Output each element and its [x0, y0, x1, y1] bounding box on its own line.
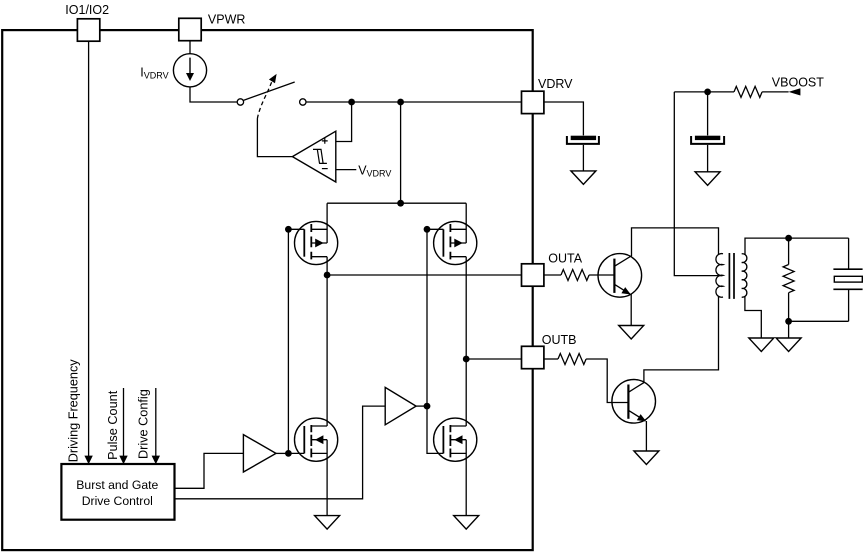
ground (below C1) — [571, 171, 596, 185]
wire: control block to buffer1 — [175, 453, 244, 488]
resistor R1 (OUTA series) — [561, 270, 589, 281]
wire: VBOOST node to cap C2 — [707, 92, 709, 135]
transformer T1 core — [729, 253, 734, 299]
transistor Q1 (NPN high) — [598, 228, 719, 326]
svg-text:VDRV: VDRV — [538, 77, 573, 91]
node: gate bus / buffer2 output — [424, 403, 431, 410]
pin OUTA — [522, 264, 544, 286]
current source IVDRV — [173, 54, 206, 87]
capacitor C2 (VBOOST decoupling) — [695, 136, 720, 140]
svg-text:VVDRV: VVDRV — [358, 164, 391, 179]
svg-text:VBOOST: VBOOST — [772, 76, 824, 90]
arrowhead into control block (Drive Config) — [152, 456, 160, 465]
wire: buffer2 output — [416, 405, 427, 407]
node: gate M2 — [424, 226, 431, 233]
wire: cap C2 to ground — [707, 145, 709, 172]
arrowhead into control block (Pulse Count) — [119, 456, 127, 465]
transformer T1 secondary winding — [742, 254, 747, 297]
svg-text:Pulse Count: Pulse Count — [106, 390, 120, 460]
wire: comparator plus input — [336, 102, 352, 142]
wire: R1 to Q1 base — [589, 274, 614, 276]
piezo transducer XD1 — [848, 238, 850, 321]
svg-text:IO1/IO2: IO1/IO2 — [65, 3, 109, 17]
wire: OUTA net — [327, 274, 521, 276]
wire: cap C1 to ground — [582, 145, 584, 171]
node: gate M1 — [285, 226, 292, 233]
control block: Burst and Gate Drive Control — [61, 464, 174, 520]
svg-text:VPWR: VPWR — [208, 12, 246, 26]
op-amp U1 (hysteresis comparator) — [292, 131, 335, 182]
transistor M1 (high-side PMOS left) — [288, 203, 337, 275]
wire: comparator minus stub (VVDRV) — [336, 169, 357, 171]
svg-text:OUTB: OUTB — [542, 333, 577, 347]
node: tank top junction — [785, 235, 792, 242]
wire: Drive Config line — [155, 388, 157, 456]
wire: comparator output to switch control — [257, 119, 292, 157]
wire: vertical to bridge top rail — [400, 102, 402, 203]
wire: VBOOST to transformer center tap — [674, 92, 722, 276]
buffer U3 (gate driver right) — [385, 387, 416, 424]
ground (Q1 emitter) — [619, 326, 644, 340]
wire: OUTB net — [466, 358, 521, 360]
node: junction main wire / bridge rail — [397, 99, 404, 106]
wire: secondary top to tank — [745, 238, 849, 255]
node: gate bus / buffer1 output — [285, 450, 292, 457]
wire: R2 to Q2 base — [586, 359, 628, 403]
ground (Q2 emitter) — [634, 451, 659, 465]
buffer U2 (gate driver left) — [243, 435, 276, 472]
VBOOST terminal arrow — [789, 88, 801, 95]
wire: bridge top rail — [327, 202, 466, 204]
IC boundary box — [2, 30, 533, 550]
ground (below C2) — [695, 172, 720, 186]
pin OUTB — [522, 346, 544, 368]
ground (below M3) — [315, 516, 340, 530]
resistor R3 (VBOOST series) — [734, 86, 762, 97]
node: OUTB junction — [463, 356, 470, 363]
node: junction main wire / comparator input — [348, 99, 355, 106]
wire: gate bus right (M2/M4 gates) — [426, 229, 428, 406]
wire: control block to buffer2 — [175, 406, 386, 499]
wire: gate bus left (M1/M3 gates) — [287, 229, 289, 453]
wire: tank bottom rail — [789, 320, 849, 322]
ground (tank bottom) — [776, 338, 801, 352]
transformer T1 primary winding — [716, 254, 723, 298]
svg-text:IVDRV: IVDRV — [140, 66, 168, 81]
svg-text:OUTA: OUTA — [548, 251, 582, 265]
wire: VDRV pin to external cap — [544, 102, 584, 135]
wire: VBOOST rail — [674, 91, 788, 93]
svg-text:Burst and Gate: Burst and Gate — [76, 478, 158, 492]
wire: IO1/IO2 pin down to control block (Driving Frequency) — [88, 42, 90, 457]
transistor M4 (low-side NMOS right) — [427, 359, 477, 516]
svg-text:Drive Config: Drive Config — [137, 389, 151, 459]
arrowhead into control block (Driving Frequency) — [84, 456, 92, 465]
pin IO1/IO2 — [77, 19, 99, 41]
pin VPWR — [179, 18, 201, 40]
wire: switch to VDRV pin — [306, 101, 522, 103]
transistor Q2 (NPN low) — [612, 296, 719, 451]
node: VBOOST cap junction — [704, 89, 711, 96]
switch S1 (open, with actuation arrow) — [237, 99, 243, 105]
wire: Pulse Count line — [123, 388, 125, 456]
resistor R2 (OUTB series) — [558, 354, 586, 365]
node: OUTA junction — [324, 272, 331, 279]
node: rail junction — [397, 200, 404, 207]
capacitor C1 (VDRV decoupling) — [571, 136, 596, 140]
svg-text:Drive Control: Drive Control — [82, 494, 153, 508]
transistor M2 (high-side PMOS right) — [427, 203, 477, 359]
svg-text:Driving Frequency: Driving Frequency — [66, 359, 80, 463]
wire: secondary bottom to ground — [745, 296, 761, 338]
wire: current source to switch — [190, 87, 237, 102]
wire: OUTB pin to resistor R2 — [544, 358, 558, 360]
resistor R4 (tank damping) — [783, 238, 794, 338]
pin VDRV — [522, 91, 544, 113]
wire: buffer1 output — [276, 452, 288, 454]
ground (below M4) — [454, 516, 479, 530]
wire: OUTA pin to resistor R1 — [544, 274, 561, 276]
node: tank bottom junction — [785, 318, 792, 325]
transistor M3 (low-side NMOS left) — [288, 275, 337, 516]
wire: VPWR pin to current source — [189, 41, 191, 54]
ground (secondary bottom) — [749, 338, 774, 352]
